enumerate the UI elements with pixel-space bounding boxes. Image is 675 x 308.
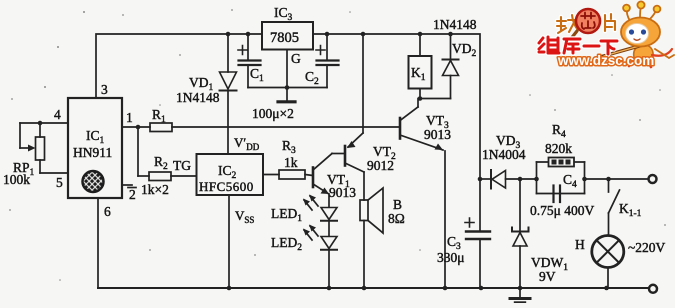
svg-text:LED1: LED1 xyxy=(271,206,302,224)
wire top rail right segment from 7805 output to right corner xyxy=(313,34,480,179)
node junction C1 top xyxy=(246,32,251,37)
node main wire at right rail xyxy=(478,177,483,182)
IC2 HFC5600 xyxy=(197,154,264,195)
svg-text:HFC5600: HFC5600 xyxy=(199,179,254,194)
svg-text:C4: C4 xyxy=(563,172,577,190)
svg-text:IC3: IC3 xyxy=(274,5,293,23)
terminal bottom right xyxy=(649,285,657,293)
transistor VT1 9013 xyxy=(313,154,345,208)
lamp H xyxy=(592,236,624,289)
wire to live terminal xyxy=(585,178,649,180)
svg-text:K1: K1 xyxy=(411,65,426,83)
svg-text:R2: R2 xyxy=(154,154,168,172)
svg-text:C1: C1 xyxy=(250,66,264,84)
speaker B 8ohm xyxy=(360,188,383,288)
svg-text:1N4148: 1N4148 xyxy=(433,17,477,32)
svg-text:1k×2: 1k×2 xyxy=(141,182,169,197)
node junction VD2 top xyxy=(448,32,453,37)
svg-text:IC1: IC1 xyxy=(86,128,105,146)
resistor R4 820k parallel capacitor C4 xyxy=(537,158,585,203)
svg-text:820k: 820k xyxy=(545,141,572,156)
svg-text:2: 2 xyxy=(129,187,136,202)
svg-text:4: 4 xyxy=(54,107,61,122)
text weiku yixia (red) xyxy=(539,37,617,54)
wire IC1 pin6 to ground rail xyxy=(97,198,99,288)
node junction C2 top xyxy=(325,32,330,37)
watermark logo dzsc xyxy=(539,1,674,68)
mascot body xyxy=(629,44,674,67)
node junction VT2 emitter rail xyxy=(361,32,366,37)
svg-text:1k: 1k xyxy=(284,155,298,170)
resistor R1 xyxy=(122,123,172,132)
node VDW1 tap xyxy=(518,177,523,182)
svg-text:1: 1 xyxy=(126,110,133,125)
mascot pen xyxy=(600,43,650,57)
svg-text:0.75μ 400V: 0.75μ 400V xyxy=(530,203,594,218)
ground pin G of 7805 xyxy=(278,50,295,102)
svg-text:9012: 9012 xyxy=(367,158,394,173)
transistor VT2 9012 xyxy=(345,34,364,200)
transistor VT3 9013 xyxy=(400,99,445,289)
diode VD3 1N4004 xyxy=(480,170,537,189)
wire base row from R1 to VT3 base xyxy=(172,126,400,128)
pin 2 stub with overline xyxy=(122,184,132,186)
capacitor C1 100u xyxy=(238,34,261,88)
svg-text:9V: 9V xyxy=(539,269,556,284)
switch K1-1 xyxy=(609,179,620,235)
svg-text:V′DD: V′DD xyxy=(234,135,260,152)
mascot head xyxy=(621,18,660,47)
mascot antennae xyxy=(623,1,660,21)
terminal top right xyxy=(649,175,657,183)
diode VD1 1N4148 xyxy=(220,34,237,154)
wire bottom ground rail xyxy=(98,287,649,289)
wire C1 bottom to C2 bottom xyxy=(248,87,327,89)
svg-text:R3: R3 xyxy=(282,138,296,156)
svg-text:HN911: HN911 xyxy=(73,145,112,160)
svg-text:B: B xyxy=(393,197,402,212)
LED1 xyxy=(303,195,337,237)
svg-text:LED2: LED2 xyxy=(271,235,302,253)
resistor R2 1k TG xyxy=(138,127,197,181)
LED2 xyxy=(303,225,337,289)
svg-text:330μ: 330μ xyxy=(437,250,465,265)
svg-text:3: 3 xyxy=(101,82,108,97)
svg-text:5: 5 xyxy=(56,175,63,190)
svg-text:TG: TG xyxy=(173,158,191,173)
diode VD2 1N4148 flyback xyxy=(420,34,459,99)
resistor R3 1k xyxy=(263,170,313,179)
IC1 HN911 xyxy=(68,98,122,198)
svg-text:6: 6 xyxy=(104,204,111,219)
capacitor C2 100u xyxy=(316,34,339,88)
ground symbol xyxy=(510,288,530,303)
capacitor C3 330u xyxy=(465,179,490,288)
magnifier lens with xin (chip) xyxy=(566,31,577,45)
regulator IC3 7805 xyxy=(262,22,313,50)
svg-text:K1-1: K1-1 xyxy=(619,201,642,219)
node junction VD1 top xyxy=(226,32,231,37)
svg-text:100μ×2: 100μ×2 xyxy=(252,106,294,121)
svg-text:G: G xyxy=(291,51,301,66)
svg-text:7805: 7805 xyxy=(270,30,299,46)
text pian (piece) xyxy=(605,14,615,31)
microphone window of IC1 xyxy=(83,171,104,192)
svg-text:8Ω: 8Ω xyxy=(388,211,405,226)
svg-text:1N4004: 1N4004 xyxy=(482,147,526,162)
svg-text:9013: 9013 xyxy=(329,185,356,200)
node junction K1 top xyxy=(418,32,423,37)
svg-text:9013: 9013 xyxy=(424,127,451,142)
mascot face xyxy=(626,24,649,44)
wire VSS to ground rail xyxy=(228,195,230,288)
svg-text:C2: C2 xyxy=(305,69,319,87)
wire top rail left segment from IC1 pin3 to 7805 input xyxy=(96,34,262,98)
potentiometer RP1 100k xyxy=(20,123,68,173)
relay K1 xyxy=(409,34,432,99)
svg-text:1N4148: 1N4148 xyxy=(176,90,220,105)
text zhao (find) xyxy=(557,15,578,33)
svg-text:R4: R4 xyxy=(552,122,566,140)
svg-text:VSS: VSS xyxy=(235,208,254,225)
zener diode VDW1 9V xyxy=(512,179,529,288)
svg-text:VD2: VD2 xyxy=(452,41,477,59)
svg-text:H: H xyxy=(575,237,585,252)
svg-text:100k: 100k xyxy=(3,172,30,187)
svg-text:www.dzsc.com: www.dzsc.com xyxy=(557,53,654,68)
svg-text:~220V: ~220V xyxy=(628,240,666,255)
